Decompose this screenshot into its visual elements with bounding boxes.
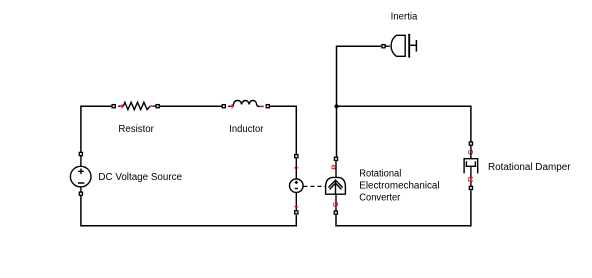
svg-text:R: R [466, 176, 475, 182]
damper R port [469, 186, 472, 189]
DC voltage source port V+ [79, 152, 82, 155]
svg-text:Rotational Damper: Rotational Damper [488, 162, 571, 173]
converter electrical stub top [295, 159, 297, 180]
inertia shaft end bar [415, 40, 417, 52]
converter dome chevron outer [328, 180, 342, 187]
wire resistor to inductor [160, 105, 222, 107]
wire inductor to converter + port [270, 106, 296, 154]
damper piston rod [470, 166, 472, 186]
inductor L port left [222, 105, 225, 108]
converter mech stub bottom [335, 194, 337, 211]
junction node [334, 104, 338, 108]
inductor plus mark [230, 104, 234, 108]
converter dashed link [303, 185, 325, 187]
label Rotational Electromechanical Converter [359, 169, 439, 204]
inductor L port right [266, 105, 269, 108]
converter U1 electrical circle [290, 179, 304, 193]
wire branch to damper C [337, 106, 471, 141]
svg-text:C: C [331, 201, 340, 207]
inertia J port [382, 45, 385, 48]
svg-text:DC Voltage Source: DC Voltage Source [98, 172, 182, 183]
damper piston plate [466, 161, 477, 166]
resistor R port right [156, 105, 159, 108]
DC voltage source stub bottom [80, 187, 82, 193]
converter electrical + port [295, 155, 298, 158]
converter electrical stub bottom [295, 193, 297, 211]
resistor minus mark [150, 105, 154, 107]
svg-text:R: R [330, 164, 339, 170]
inductor minus mark [260, 105, 264, 107]
wire mech bottom: converter C to damper R [336, 190, 471, 226]
converter electrical plus mark [294, 166, 298, 170]
DC voltage source port V- [79, 192, 82, 195]
wire mech top: inertia to converter R [337, 46, 382, 157]
inertia J body [391, 34, 416, 58]
DC voltage source stub top [80, 156, 82, 167]
converter U1 mechanical dome [326, 177, 346, 194]
damper B1 cylinder [464, 159, 478, 186]
svg-text:Converter: Converter [359, 192, 401, 203]
svg-text:Resistor: Resistor [118, 124, 154, 135]
converter electrical - port [295, 211, 298, 214]
svg-text:Inertia: Inertia [391, 12, 418, 23]
converter electrical minus mark [294, 206, 298, 208]
damper rod top [470, 146, 472, 159]
inertia shaft [410, 44, 417, 46]
inertia stub [385, 45, 390, 47]
DC voltage source circle [70, 166, 91, 187]
converter dome shaft arrow [335, 181, 337, 194]
svg-text:Inductor: Inductor [229, 124, 264, 135]
resistor zigzag [118, 102, 156, 109]
converter mech stub top [335, 161, 337, 178]
inertia axle bar [408, 34, 410, 58]
damper C port [469, 142, 472, 145]
converter mech C port [334, 211, 337, 214]
inductor coil [228, 101, 264, 107]
converter dome chevron inner [330, 183, 342, 189]
svg-text:Electromechanical: Electromechanical [359, 181, 439, 192]
svg-text:Rotational: Rotational [359, 169, 401, 180]
converter mech R port [334, 157, 337, 160]
wire bottom loop: DC source to converter - port [81, 196, 296, 226]
wire left loop top: DC source to resistor [81, 106, 112, 152]
resistor plus mark [120, 104, 124, 108]
resistor R port left [112, 105, 115, 108]
